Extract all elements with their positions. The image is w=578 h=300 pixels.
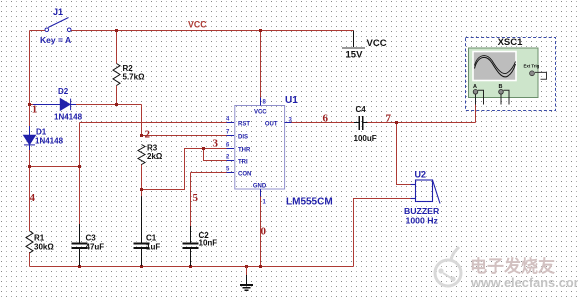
svg-text:15V: 15V (346, 50, 364, 61)
svg-text:D2: D2 (58, 87, 69, 96)
capacitor C1 (134, 196, 150, 266)
svg-text:6: 6 (323, 113, 329, 125)
wire D2 row (30, 104, 142, 106)
svg-text:1: 1 (32, 104, 38, 116)
svg-text:10nF: 10nF (199, 239, 218, 248)
svg-text:Ext Trig: Ext Trig (524, 64, 540, 69)
svg-text:0: 0 (261, 226, 267, 238)
svg-text:C1: C1 (146, 234, 157, 243)
diode D1 (24, 126, 36, 150)
svg-text:A: A (473, 84, 477, 90)
svg-text:1uF: 1uF (146, 243, 160, 252)
junction R2 bottom (115, 103, 118, 106)
junction R3-C1 (140, 188, 143, 191)
svg-text:D1: D1 (36, 128, 47, 137)
svg-text:RST: RST (238, 122, 250, 128)
svg-text:B: B (499, 84, 503, 90)
svg-text:GND: GND (253, 184, 267, 190)
resistor R1 (26, 231, 33, 253)
scope trace (475, 57, 516, 77)
junction U1 VCC pin (259, 29, 262, 32)
wire scope A drop (475, 104, 477, 123)
svg-text:VCC: VCC (254, 110, 267, 116)
wire top rail (71, 30, 354, 32)
svg-text:LM555CM: LM555CM (286, 197, 333, 208)
junction THR-TRI (202, 147, 205, 150)
svg-text:4: 4 (30, 192, 36, 204)
oscilloscope XSC1 (466, 38, 556, 111)
wire VCC pin8 (260, 31, 262, 98)
svg-text:2kΩ: 2kΩ (147, 152, 163, 161)
wire OUT to C4 (292, 122, 355, 124)
wire buzzer top branch (397, 123, 412, 185)
junction node 4 right (78, 165, 81, 168)
junction node 4 left (28, 165, 31, 168)
wire net4 horizontal (30, 166, 80, 168)
svg-text:U1: U1 (285, 95, 298, 106)
svg-text:1N4148: 1N4148 (54, 113, 83, 122)
wire RST (80, 122, 235, 124)
junction R2 top (115, 29, 118, 32)
wire R2 bottom lead (116, 86, 118, 105)
VCC source (342, 31, 365, 49)
svg-text:100uF: 100uF (354, 134, 377, 143)
wire net3 path (142, 149, 235, 190)
wire DIS (142, 135, 235, 137)
wire net5 vertical (190, 173, 192, 227)
junction node 7 (395, 121, 398, 124)
wire CON (191, 172, 235, 174)
svg-text:Key = A: Key = A (40, 35, 71, 45)
wire C1 top (141, 190, 143, 197)
ground (240, 267, 253, 291)
svg-text:5.7kΩ: 5.7kΩ (123, 73, 146, 82)
svg-text:U2: U2 (415, 170, 427, 180)
resistor R3 (138, 145, 145, 165)
wire R3 bottom lead (141, 164, 143, 190)
svg-text:BUZZER: BUZZER (404, 206, 440, 216)
wire buzzer bottom branch (354, 199, 412, 267)
wire net7 (368, 122, 476, 124)
buzzer U2 (411, 180, 441, 204)
wire node2 vertical (141, 105, 143, 136)
svg-text:5: 5 (193, 192, 199, 204)
svg-text:3: 3 (213, 138, 219, 150)
svg-text:VCC: VCC (367, 38, 387, 49)
svg-text:VCC: VCC (188, 20, 207, 30)
svg-text:C3: C3 (86, 234, 97, 243)
svg-text:TRI: TRI (238, 160, 248, 166)
resistor R2 (113, 64, 120, 86)
svg-text:R1: R1 (34, 234, 45, 243)
U1 pin stubs (227, 98, 292, 197)
diode D2 (33, 99, 76, 111)
wire R2 top lead (116, 31, 118, 64)
wire left vertical (29, 31, 31, 232)
junction ground symbol (245, 265, 248, 268)
svg-text:1N4148: 1N4148 (35, 137, 64, 146)
wire TRI branch (204, 149, 235, 161)
svg-text:7: 7 (386, 113, 392, 125)
svg-text:47uF: 47uF (86, 243, 105, 252)
svg-text:THR: THR (238, 148, 251, 154)
svg-text:XSC1: XSC1 (498, 37, 524, 48)
svg-text:www.elecfans.com: www.elecfans.com (470, 275, 578, 290)
capacitor C4 (354, 116, 368, 130)
svg-text:DIS: DIS (238, 135, 248, 141)
wire top left to switch (30, 30, 46, 32)
svg-text:OUT: OUT (265, 122, 278, 128)
svg-text:C4: C4 (356, 105, 367, 114)
svg-text:电子发烧友: 电子发烧友 (470, 256, 555, 276)
junction C1 ground (140, 265, 143, 268)
switch J1 (45, 18, 71, 32)
junction node 2 (140, 134, 143, 137)
svg-text:1000 Hz: 1000 Hz (406, 216, 439, 226)
junction C3 ground (78, 265, 81, 268)
svg-text:CON: CON (238, 172, 251, 178)
wire GND pin1 (260, 197, 262, 267)
capacitor C2 (183, 226, 199, 266)
IC U1 LM555CM box (235, 106, 285, 190)
junction node 1 (28, 103, 31, 106)
wire net4 vertical (79, 123, 81, 225)
svg-text:J1: J1 (53, 7, 63, 17)
svg-text:30kΩ: 30kΩ (34, 243, 54, 252)
svg-text:2: 2 (145, 129, 151, 141)
junction C2 ground (189, 265, 192, 268)
capacitor C3 (72, 224, 88, 266)
junction U1 GND (259, 265, 262, 268)
wire bottom rail (30, 266, 354, 268)
watermark logo (435, 247, 461, 286)
